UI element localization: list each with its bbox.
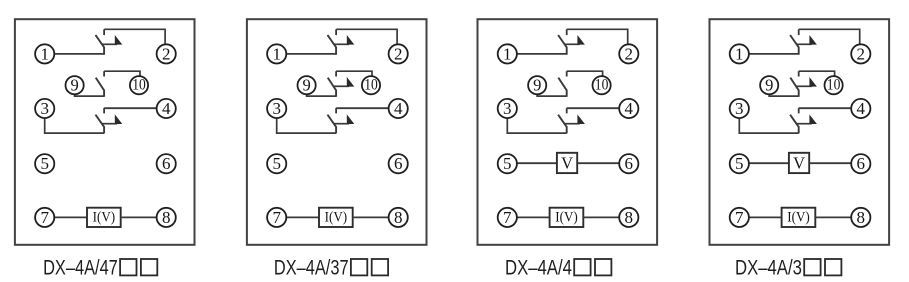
contact K1 fixed contact stub (DX-4A/3) [798,29,800,35]
wire contact K3 blade to terminal 3 (DX-4A/3) [739,118,798,133]
svg-text:6: 6 [162,154,171,173]
wire contact K1 fixed side to terminal 2 (DX-4A/3) [799,29,860,44]
terminal 4 (DX-4A/37) [389,99,408,118]
svg-text:I(V): I(V) [555,210,578,226]
terminal 10 (DX-4A/47) [130,76,148,94]
wire contact K3 blade to terminal 3 (DX-4A/37) [277,118,336,133]
terminal 8 (DX-4A/47) [157,208,176,227]
contact K1 moving blade (DX-4A/4) [558,35,567,55]
contact K3 actuation arrow (DX-4A/3) [797,114,817,124]
svg-text:8: 8 [857,208,866,227]
label placeholder square 1 (DX-4A/4) [574,259,590,275]
svg-text:1: 1 [272,44,281,63]
terminal 2 (DX-4A/4) [619,44,638,63]
terminal 10 (DX-4A/3) [825,76,843,94]
svg-text:DX–4A/47: DX–4A/47 [43,256,118,279]
contact K2 moving blade (DX-4A/37) [328,78,336,97]
terminal 2 (DX-4A/3) [851,44,870,63]
label placeholder square 1 (DX-4A/3) [804,259,820,275]
wire operating element I(V) to terminal 8 (DX-4A/37) [353,216,389,218]
wire contact K2 fixed side to terminal 10 (DX-4A/47) [104,71,140,76]
wire contact K2 fixed side to terminal 10 (DX-4A/37) [336,71,372,76]
contact K1 moving blade (DX-4A/37) [328,35,337,55]
wire contact K1 fixed side to terminal 2 (DX-4A/37) [336,29,397,44]
terminal 5 (DX-4A/37) [267,154,286,173]
operating element I(V) box (DX-4A/4) [550,208,584,227]
svg-text:1: 1 [40,44,49,63]
svg-text:3: 3 [272,99,281,118]
svg-text:V: V [561,154,573,173]
terminal 2 (DX-4A/37) [389,44,408,63]
wire terminal 7 to operating element I(V) (DX-4A/4) [517,216,550,218]
operating element I(V) box (DX-4A/37) [319,208,353,227]
contact K3 fixed contact stub (DX-4A/4) [566,108,568,113]
wire voltage element V to terminal 6 (DX-4A/3) [809,162,851,164]
label placeholder square 1 (DX-4A/37) [351,259,367,275]
label placeholder square 2 (DX-4A/4) [595,259,611,275]
svg-text:2: 2 [162,44,171,63]
svg-text:V: V [793,154,805,173]
svg-text:8: 8 [394,208,403,227]
svg-text:9: 9 [765,76,773,95]
terminal 10 (DX-4A/4) [593,76,611,94]
svg-text:I(V): I(V) [787,210,810,226]
terminal 8 (DX-4A/4) [619,208,638,227]
contact K2 fixed contact stub (DX-4A/3) [798,71,800,76]
wire contact K1 fixed side to terminal 2 (DX-4A/47) [104,29,165,44]
svg-text:I(V): I(V) [325,210,348,226]
wire contact K3 blade to terminal 3 (DX-4A/47) [45,118,104,133]
terminal 3 (DX-4A/47) [35,99,54,118]
terminal 7 (DX-4A/3) [730,208,749,227]
contact K3 fixed contact stub (DX-4A/47) [103,108,105,113]
terminal 1 (DX-4A/4) [498,44,517,63]
svg-text:6: 6 [394,154,403,173]
voltage element V box (DX-4A/3) [789,153,809,173]
terminal 4 (DX-4A/4) [619,99,638,118]
contact K3 moving blade (DX-4A/37) [328,115,337,134]
terminal 4 (DX-4A/47) [157,99,176,118]
svg-text:DX–4A/37: DX–4A/37 [274,256,349,279]
wire terminal 9 to contact K2 blade (DX-4A/37) [307,94,337,96]
operating element I(V) box (DX-4A/3) [782,208,816,227]
terminal 5 (DX-4A/4) [498,154,517,173]
svg-text:4: 4 [857,99,866,118]
svg-text:7: 7 [272,208,281,227]
wire voltage element V to terminal 6 (DX-4A/4) [577,162,619,164]
terminal 7 (DX-4A/47) [35,208,54,227]
contact K1 fixed contact stub (DX-4A/4) [566,29,568,35]
svg-text:3: 3 [735,99,744,118]
terminal 1 (DX-4A/3) [730,44,749,63]
terminal 6 (DX-4A/47) [157,154,176,173]
wire contact K2 fixed side to terminal 10 (DX-4A/3) [799,71,835,76]
svg-text:8: 8 [162,208,171,227]
contact K2 moving blade (DX-4A/3) [790,78,798,97]
svg-text:8: 8 [625,208,634,227]
contact K1 fixed contact stub (DX-4A/47) [103,29,105,35]
wire terminal 9 to contact K2 blade (DX-4A/4) [537,94,567,96]
contact K2 moving blade (DX-4A/47) [96,78,104,97]
svg-text:3: 3 [40,99,49,118]
svg-text:6: 6 [625,154,634,173]
terminal 9 (DX-4A/3) [760,76,778,95]
contact K3 actuation arrow (DX-4A/47) [102,114,122,124]
terminal 6 (DX-4A/4) [619,154,638,173]
contact K3 fixed contact stub (DX-4A/3) [798,108,800,113]
contact K2 actuation arrow (DX-4A/3) [797,77,817,87]
terminal 4 (DX-4A/3) [851,99,870,118]
contact K3 moving blade (DX-4A/3) [790,115,799,134]
contact K2 fixed contact stub (DX-4A/47) [103,71,105,76]
svg-text:4: 4 [162,99,171,118]
contact K1 actuation arrow (DX-4A/37) [334,35,354,45]
svg-text:7: 7 [40,208,49,227]
terminal 7 (DX-4A/37) [267,208,286,227]
terminal 6 (DX-4A/37) [389,154,408,173]
svg-text:1: 1 [735,44,744,63]
svg-text:4: 4 [625,99,634,118]
svg-text:DX–4A/4: DX–4A/4 [505,256,572,279]
terminal 1 (DX-4A/37) [267,44,286,63]
wire terminal 9 to contact K2 blade (DX-4A/47) [75,94,105,96]
relay DX-4A/3 panel outline [710,19,890,245]
svg-text:DX–4A/3: DX–4A/3 [735,256,802,279]
svg-text:5: 5 [735,154,744,173]
operating element I(V) box (DX-4A/47) [87,208,121,227]
wire terminal 7 to operating element I(V) (DX-4A/47) [54,216,87,218]
terminal 6 (DX-4A/3) [851,154,870,173]
relay DX-4A/4 panel outline [478,19,658,245]
svg-text:4: 4 [394,99,403,118]
wire terminal 4 to contact K3 fixed side (DX-4A/4) [567,107,620,109]
svg-text:2: 2 [394,44,403,63]
terminal 1 (DX-4A/47) [35,44,54,63]
contact K1 actuation arrow (DX-4A/47) [102,35,122,45]
svg-text:7: 7 [503,208,512,227]
terminal 8 (DX-4A/37) [389,208,408,227]
svg-text:7: 7 [735,208,744,227]
svg-text:I(V): I(V) [93,210,116,226]
contact K2 fixed contact stub (DX-4A/4) [566,71,568,76]
terminal 9 (DX-4A/37) [298,76,316,95]
wire terminal 1 to contact K1 blade (DX-4A/3) [749,53,799,55]
svg-text:10: 10 [827,77,841,94]
svg-text:5: 5 [272,154,281,173]
terminal 3 (DX-4A/3) [730,99,749,118]
wire terminal 1 to contact K1 blade (DX-4A/37) [286,53,336,55]
contact K3 actuation arrow (DX-4A/37) [334,114,354,124]
svg-text:5: 5 [40,154,49,173]
label placeholder square 2 (DX-4A/47) [141,259,157,275]
terminal 3 (DX-4A/37) [267,99,286,118]
svg-text:10: 10 [595,77,609,94]
wire terminal 7 to operating element I(V) (DX-4A/37) [286,216,319,218]
wire terminal 5 to voltage element V (DX-4A/3) [749,162,789,164]
contact K2 actuation arrow (DX-4A/37) [334,77,354,87]
contact K1 moving blade (DX-4A/3) [790,35,799,55]
svg-text:2: 2 [625,44,634,63]
relay DX-4A/37 panel outline [247,19,427,245]
wire contact K2 fixed side to terminal 10 (DX-4A/4) [567,71,603,76]
wire terminal 4 to contact K3 fixed side (DX-4A/37) [336,107,389,109]
wire contact K1 fixed side to terminal 2 (DX-4A/4) [567,29,628,44]
svg-text:10: 10 [364,77,378,94]
relay DX-4A/47 panel outline [15,19,195,245]
contact K2 fixed contact stub (DX-4A/37) [335,71,337,76]
contact K3 moving blade (DX-4A/4) [558,115,567,134]
contact K1 fixed contact stub (DX-4A/37) [335,29,337,35]
svg-text:9: 9 [70,76,78,95]
contact K3 fixed contact stub (DX-4A/37) [335,108,337,113]
svg-text:9: 9 [533,76,541,95]
terminal 10 (DX-4A/37) [362,76,380,94]
contact K2 moving blade (DX-4A/4) [558,78,566,97]
terminal 9 (DX-4A/4) [528,76,546,95]
contact K1 actuation arrow (DX-4A/4) [565,35,585,45]
terminal 3 (DX-4A/4) [498,99,517,118]
voltage element V box (DX-4A/4) [557,153,577,173]
wire contact K3 blade to terminal 3 (DX-4A/4) [507,118,566,133]
wire terminal 4 to contact K3 fixed side (DX-4A/47) [104,107,157,109]
wire operating element I(V) to terminal 8 (DX-4A/4) [583,216,619,218]
contact K1 moving blade (DX-4A/47) [96,35,105,55]
terminal 7 (DX-4A/4) [498,208,517,227]
terminal 9 (DX-4A/47) [66,76,84,95]
terminal 8 (DX-4A/3) [851,208,870,227]
wire operating element I(V) to terminal 8 (DX-4A/3) [815,216,851,218]
contact K3 moving blade (DX-4A/47) [96,115,105,134]
wire terminal 1 to contact K1 blade (DX-4A/47) [54,53,104,55]
svg-text:1: 1 [503,44,512,63]
contact K1 actuation arrow (DX-4A/3) [797,35,817,45]
label placeholder square 1 (DX-4A/47) [120,259,136,275]
wire terminal 4 to contact K3 fixed side (DX-4A/3) [799,107,852,109]
wire terminal 7 to operating element I(V) (DX-4A/3) [749,216,782,218]
label placeholder square 2 (DX-4A/3) [825,259,841,275]
wire operating element I(V) to terminal 8 (DX-4A/47) [121,216,157,218]
terminal 5 (DX-4A/3) [730,154,749,173]
svg-text:5: 5 [503,154,512,173]
svg-text:6: 6 [857,154,866,173]
contact K3 actuation arrow (DX-4A/4) [565,114,585,124]
terminal 2 (DX-4A/47) [157,44,176,63]
svg-text:10: 10 [132,77,146,94]
terminal 5 (DX-4A/47) [35,154,54,173]
svg-text:2: 2 [857,44,866,63]
wire terminal 1 to contact K1 blade (DX-4A/4) [517,53,567,55]
label placeholder square 2 (DX-4A/37) [372,259,388,275]
wire terminal 5 to voltage element V (DX-4A/4) [517,162,557,164]
svg-text:3: 3 [503,99,512,118]
wire terminal 9 to contact K2 blade (DX-4A/3) [769,94,799,96]
svg-text:9: 9 [302,76,310,95]
